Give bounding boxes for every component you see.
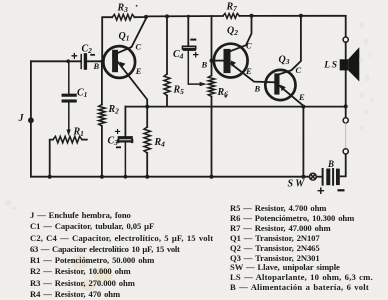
wire input top from J corner to base of Q1 bbox=[31, 60, 103, 62]
svg-text:C1: C1 bbox=[77, 88, 87, 100]
svg-text:R5: R5 bbox=[173, 85, 185, 97]
svg-text:R2: R2 bbox=[108, 104, 120, 116]
wire R5 hang from rail bbox=[166, 16, 168, 74]
resistor R7 bbox=[223, 14, 240, 19]
node C4 rail bbox=[187, 15, 190, 18]
svg-text:B: B bbox=[254, 83, 261, 93]
parts list left column bbox=[30, 210, 213, 300]
terminal circle battery top bbox=[343, 118, 348, 123]
svg-text:LS: LS bbox=[323, 60, 338, 70]
wire Q2 base lead bbox=[212, 60, 224, 62]
node C3 bus bbox=[124, 175, 128, 179]
svg-text:C4: C4 bbox=[173, 49, 184, 61]
svg-text:R7: R7 bbox=[226, 2, 238, 14]
terminal circle speaker top bbox=[343, 37, 348, 42]
resistor R2 bbox=[99, 105, 105, 127]
node R3 label tick bbox=[136, 5, 138, 7]
switch SW bbox=[310, 173, 322, 180]
wire R1 left leg to bus bbox=[50, 140, 53, 177]
capacitor C3 bbox=[118, 138, 132, 177]
transistor Q2 bbox=[214, 16, 275, 83]
wire R7 right to rail bbox=[239, 16, 345, 37]
wire R6 bottom through mid bus to ground bus bbox=[211, 97, 213, 177]
resistor R3 bbox=[112, 14, 134, 20]
capacitor C1 bbox=[63, 61, 75, 130]
wiper arrow of R6 bbox=[200, 82, 207, 86]
svg-text:+: + bbox=[317, 183, 325, 198]
potentiometer R1 bbox=[53, 136, 82, 142]
svg-text:Q1: Q1 bbox=[119, 31, 130, 43]
svg-text:E: E bbox=[135, 66, 142, 76]
node emitter Q1 / R4 / mid wire bbox=[145, 105, 149, 109]
node stray speck bbox=[224, 95, 227, 98]
node R4 bus bbox=[145, 175, 149, 179]
transistor Q1 bbox=[103, 19, 147, 107]
svg-text:E: E bbox=[245, 66, 252, 76]
wire R7 left leg down to Q2 base junction bbox=[211, 16, 213, 61]
wire rail to speaker terminal bbox=[345, 42, 347, 106]
label minus C2 bbox=[90, 54, 95, 56]
resistor R5 bbox=[164, 74, 170, 96]
node Q3 emitter mid bus bbox=[301, 105, 305, 109]
node base Q1 / R2 top bbox=[101, 60, 104, 63]
node C1 top junction bbox=[66, 59, 70, 63]
wire R4 bottom to bus bbox=[146, 153, 148, 177]
wire R2 bottom to bus bbox=[101, 126, 103, 177]
wire R3 right to collector node, top rail segment bbox=[135, 16, 223, 17]
ground bus bottom bbox=[31, 176, 310, 178]
wire mid bus bbox=[125, 106, 345, 108]
input jack J bbox=[28, 117, 34, 123]
svg-text:C2: C2 bbox=[82, 44, 93, 56]
wire R3 left leg down to base junction bbox=[102, 17, 112, 61]
resistor R6 bbox=[208, 76, 214, 97]
node speaker rail mid bbox=[344, 104, 348, 108]
svg-text:B: B bbox=[327, 159, 334, 169]
svg-text:R1: R1 bbox=[73, 127, 84, 139]
wire Q3 emitter junction down to switch bbox=[302, 107, 304, 177]
label minus C4 bbox=[190, 39, 196, 41]
wire base junction to R6 top bbox=[211, 61, 213, 76]
svg-text:+: + bbox=[193, 50, 199, 62]
wire Q3 collector from rail bbox=[279, 16, 301, 75]
wire C3 drop bbox=[124, 107, 126, 136]
node Q2 base / R6 top bbox=[210, 59, 214, 63]
label minus C3 bbox=[116, 146, 121, 148]
svg-text:B: B bbox=[93, 61, 100, 71]
svg-text:+: + bbox=[71, 51, 78, 63]
wire below mid node bbox=[345, 107, 347, 118]
wire left vertical J to ground bus bbox=[30, 61, 32, 176]
svg-text:Q3: Q3 bbox=[279, 55, 290, 67]
node Q1 collector bbox=[144, 15, 148, 19]
wire base junction down to R2 bbox=[101, 61, 103, 104]
node Q3 collector rail bbox=[299, 14, 303, 18]
svg-text:E: E bbox=[298, 92, 305, 102]
svg-text:Q2: Q2 bbox=[227, 26, 238, 38]
wire R1 right open stub bbox=[82, 139, 87, 141]
svg-text:B: B bbox=[201, 59, 208, 69]
svg-text:C: C bbox=[296, 65, 302, 75]
node R2 bus bbox=[100, 175, 104, 179]
resistor R4 bbox=[144, 127, 150, 153]
svg-text:R4: R4 bbox=[154, 137, 166, 149]
wire C4 hang from rail bbox=[187, 16, 189, 45]
svg-text:R3: R3 bbox=[117, 3, 129, 15]
svg-text:+: + bbox=[115, 126, 121, 138]
wire R5 bottom to mid bus bbox=[166, 96, 168, 107]
svg-text:C: C bbox=[136, 42, 142, 52]
svg-text:J: J bbox=[18, 113, 25, 124]
wire faint between terminals bbox=[345, 123, 347, 149]
terminal circle battery bottom bbox=[343, 149, 348, 154]
node R5 rail bbox=[165, 14, 169, 18]
wiper arrow of R1 bbox=[67, 130, 71, 137]
node R1 bus bbox=[48, 175, 52, 179]
label minus battery bbox=[338, 189, 345, 191]
node Q2 collector rail bbox=[250, 14, 254, 18]
node SW bus bbox=[301, 175, 305, 179]
battery B bbox=[323, 154, 346, 185]
capacitor C2 bbox=[81, 55, 85, 69]
loudspeaker LS bbox=[340, 47, 360, 81]
parts list right column bbox=[230, 204, 373, 293]
node R6 bus bbox=[210, 175, 214, 179]
capacitor C4 bbox=[182, 46, 199, 84]
svg-text:C: C bbox=[246, 41, 252, 51]
svg-text:SW: SW bbox=[288, 178, 307, 189]
wire R4 top bbox=[146, 107, 148, 127]
transistor Q3 bbox=[265, 70, 303, 107]
